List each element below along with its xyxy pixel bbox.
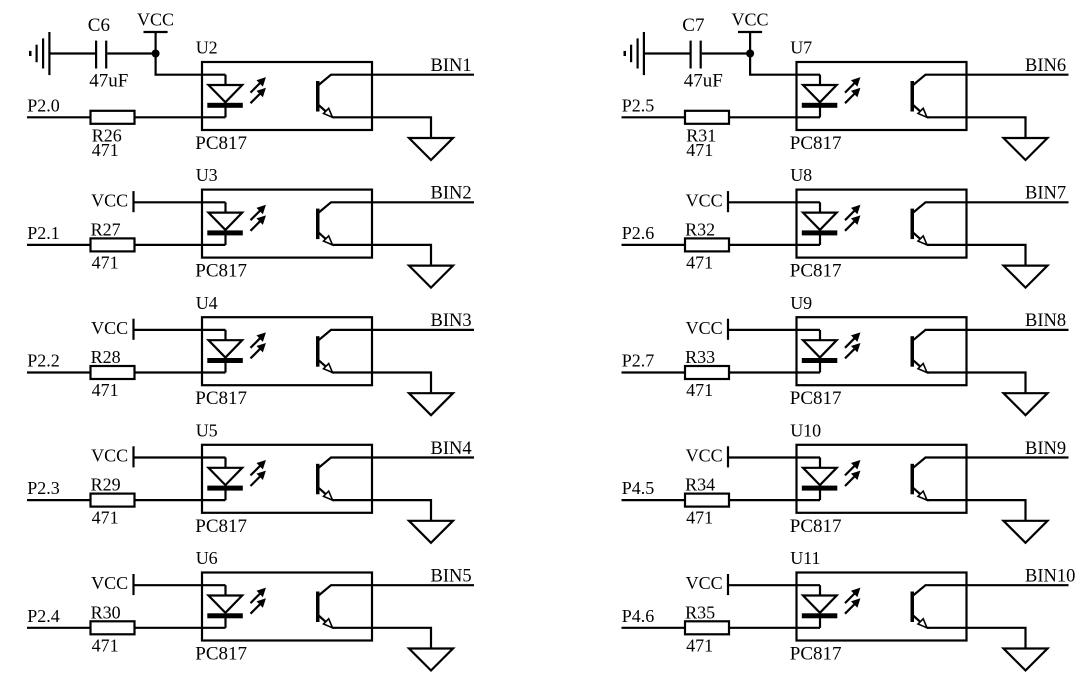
- svg-text:47uF: 47uF: [684, 71, 723, 92]
- svg-text:P2.0: P2.0: [27, 95, 60, 115]
- svg-text:BIN9: BIN9: [1025, 439, 1066, 459]
- svg-text:P2.7: P2.7: [622, 351, 655, 371]
- svg-text:VCC: VCC: [686, 318, 723, 338]
- svg-text:PC817: PC817: [195, 388, 247, 409]
- svg-text:BIN10: BIN10: [1025, 567, 1075, 587]
- svg-text:P2.5: P2.5: [622, 95, 655, 115]
- svg-text:471: 471: [92, 508, 119, 528]
- svg-text:47uF: 47uF: [89, 71, 128, 92]
- svg-text:BIN5: BIN5: [431, 567, 472, 587]
- svg-text:U4: U4: [196, 293, 218, 313]
- svg-text:PC817: PC817: [195, 261, 247, 282]
- svg-text:PC817: PC817: [790, 261, 842, 282]
- svg-text:471: 471: [686, 252, 713, 272]
- svg-text:VCC: VCC: [91, 573, 128, 593]
- svg-text:BIN1: BIN1: [431, 56, 472, 76]
- svg-text:BIN7: BIN7: [1025, 184, 1066, 204]
- svg-text:U9: U9: [790, 293, 812, 313]
- svg-text:471: 471: [92, 380, 119, 400]
- svg-text:PC817: PC817: [790, 388, 842, 409]
- svg-text:P4.6: P4.6: [622, 606, 655, 626]
- svg-text:U6: U6: [196, 548, 218, 568]
- svg-text:U8: U8: [790, 165, 812, 185]
- svg-text:U11: U11: [790, 548, 820, 568]
- svg-text:PC817: PC817: [195, 516, 247, 537]
- svg-text:VCC: VCC: [91, 446, 128, 466]
- svg-text:VCC: VCC: [91, 190, 128, 210]
- svg-text:P4.5: P4.5: [622, 478, 655, 498]
- svg-text:VCC: VCC: [732, 9, 769, 29]
- svg-text:471: 471: [92, 252, 119, 272]
- svg-text:R32: R32: [685, 219, 715, 239]
- svg-text:471: 471: [686, 635, 713, 655]
- svg-text:R29: R29: [91, 475, 121, 495]
- svg-text:BIN6: BIN6: [1025, 56, 1066, 76]
- svg-text:PC817: PC817: [790, 133, 842, 154]
- svg-text:BIN3: BIN3: [431, 311, 472, 331]
- svg-text:PC817: PC817: [790, 644, 842, 665]
- svg-text:U5: U5: [196, 420, 218, 440]
- svg-text:C6: C6: [88, 15, 110, 36]
- svg-text:P2.3: P2.3: [27, 478, 60, 498]
- svg-text:R28: R28: [91, 347, 121, 367]
- svg-text:VCC: VCC: [686, 573, 723, 593]
- svg-text:BIN8: BIN8: [1025, 311, 1066, 331]
- svg-text:R35: R35: [685, 602, 715, 622]
- svg-text:PC817: PC817: [790, 516, 842, 537]
- svg-text:R34: R34: [685, 475, 715, 495]
- svg-text:U3: U3: [196, 165, 218, 185]
- svg-text:PC817: PC817: [195, 644, 247, 665]
- svg-text:BIN2: BIN2: [431, 184, 472, 204]
- svg-text:471: 471: [92, 635, 119, 655]
- svg-text:VCC: VCC: [686, 446, 723, 466]
- svg-text:471: 471: [686, 140, 713, 160]
- svg-text:R27: R27: [91, 219, 121, 239]
- svg-text:U10: U10: [790, 420, 821, 440]
- svg-text:471: 471: [686, 380, 713, 400]
- svg-text:P2.1: P2.1: [27, 223, 60, 243]
- svg-text:C7: C7: [682, 15, 704, 36]
- svg-text:P2.6: P2.6: [622, 223, 655, 243]
- svg-text:R33: R33: [685, 347, 715, 367]
- svg-text:VCC: VCC: [91, 318, 128, 338]
- svg-text:PC817: PC817: [195, 133, 247, 154]
- svg-text:BIN4: BIN4: [431, 439, 472, 459]
- svg-text:P2.4: P2.4: [27, 606, 60, 626]
- svg-text:471: 471: [92, 140, 119, 160]
- svg-text:U7: U7: [790, 38, 812, 58]
- svg-text:R30: R30: [91, 602, 121, 622]
- svg-text:VCC: VCC: [137, 9, 174, 29]
- svg-text:VCC: VCC: [686, 190, 723, 210]
- svg-text:471: 471: [686, 508, 713, 528]
- svg-text:U2: U2: [196, 38, 218, 58]
- svg-text:P2.2: P2.2: [27, 351, 60, 371]
